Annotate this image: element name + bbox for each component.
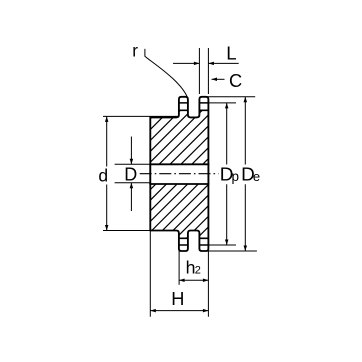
h2 dimension line: [179, 279, 208, 281]
tooth root lines: [179, 110, 209, 238]
horizontal centerline (dash-dot): [140, 173, 219, 175]
svg-text:p: p: [232, 169, 240, 184]
L extension lines: [199, 48, 208, 94]
svg-text:d: d: [98, 166, 108, 186]
L dimension line: [173, 62, 239, 64]
svg-text:e: e: [253, 169, 260, 184]
svg-text:2: 2: [195, 264, 201, 276]
svg-text:H: H: [171, 289, 184, 309]
section hatching (bottom half): [100, 182, 264, 240]
r leader line: [145, 49, 188, 99]
bore band (shaft hole): [149, 165, 209, 183]
De dimension line: [244, 97, 246, 251]
D extension lines: [115, 164, 151, 183]
H dimension line: [150, 310, 208, 312]
De extension lines: [207, 97, 257, 251]
svg-text:L: L: [226, 43, 236, 64]
C arrow: [212, 78, 225, 80]
body edge extension lines for H: [150, 231, 208, 317]
D dimension line: [130, 137, 132, 212]
d dimension line: [106, 116, 108, 230]
svg-text:r: r: [132, 41, 138, 61]
tooth pitch lines: [179, 103, 209, 245]
sprocket body outline (half-section): [150, 97, 208, 251]
h2 extension line: [178, 251, 180, 285]
d extension lines: [103, 116, 179, 230]
Dp dimension line: [226, 103, 228, 245]
Dp extension lines: [207, 103, 237, 245]
svg-text:D: D: [124, 165, 137, 185]
section hatching (top half): [92, 108, 259, 166]
svg-text:C: C: [229, 70, 242, 91]
